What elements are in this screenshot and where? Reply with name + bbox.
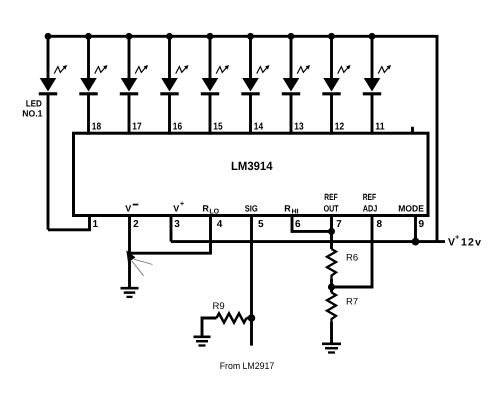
LED 2 (pin 18) cathode bar [79,92,97,95]
svg-text:1: 1 [93,219,99,230]
svg-text:+: + [455,233,460,242]
node: SIG / R9 junction dot [248,314,256,322]
wire: supply rail drop to LED 6 (pin 14) anode [249,36,252,80]
junction dot on +V rail at LED column 3 [126,33,133,40]
wire: LED 8 (pin 12) cathode down [330,94,333,135]
svg-text:R9: R9 [213,301,225,312]
wire: supply rail drop to LED 8 (pin 12) anode [330,36,333,80]
wire: LED NO.1 (pin 1) cathode down [47,94,50,230]
wire: supply rail drop to LED 2 (pin 18) anode [87,36,90,80]
LED 8 (pin 12) diode triangle [323,78,340,92]
op IC U1 LM3914 body [74,133,429,215]
LED 4 (pin 16) diode triangle [161,78,178,92]
svg-text:12v: 12v [461,237,482,249]
LED 5 (pin 15) light emission arrow [216,65,229,74]
node: R6/R7/REF ADJ junction dot [328,283,335,290]
LED 6 (pin 14) light emission arrow [257,65,270,74]
wire: LED 5 (pin 15) cathode down [209,94,212,135]
svg-text:R: R [284,203,291,213]
junction dot on +V rail at LED column 6 [247,33,254,40]
svg-text:REF: REF [363,192,377,202]
svg-text:2: 2 [133,219,139,230]
svg-text:HI: HI [292,209,299,216]
svg-text:7: 7 [336,219,342,230]
LED 3 (pin 17) cathode bar [120,92,138,95]
svg-text:13: 13 [294,122,304,133]
wire: supply rail drop to LED 3 (pin 17) anode [128,36,131,80]
wire: R7 down to ground [330,322,333,344]
wire: supply rail drop to LED 7 (pin 13) anode [290,36,293,80]
svg-text:14: 14 [254,122,264,133]
ground below R7 [322,344,341,353]
junction dot on +V rail at LED column 7 [288,33,295,40]
svg-text:From LM2917: From LM2917 [220,361,275,372]
resistor R7 [327,293,336,323]
wire: pin 7 REF OUT down to R6 [330,216,333,250]
LED 4 (pin 16) light emission arrow [176,65,189,74]
junction dot on +V rail at LED column 2 [85,33,92,40]
svg-text:4: 4 [217,219,223,230]
svg-text:ADJ: ADJ [363,203,378,213]
LED 9 (pin 11) diode triangle [364,78,381,92]
svg-text:REF: REF [324,192,338,202]
junction dot on +V rail at LED column 4 [166,33,173,40]
wire: pin 9 MODE down to +12V line [414,216,417,242]
LED NO.1 (pin 1) diode triangle [40,78,57,92]
svg-text:LO: LO [209,209,219,216]
wire: supply rail drop to LED NO.1 (pin 1) anode [47,36,50,80]
wire: LED 6 (pin 14) cathode down [249,94,252,135]
wire: LED 2 (pin 18) cathode down [87,94,90,135]
svg-text:6: 6 [295,219,301,230]
svg-text:16: 16 [173,122,183,133]
svg-text:+: + [180,199,185,208]
junction dot on +V rail at LED column 8 [328,33,335,40]
wire: supply rail drop to LED 4 (pin 16) anode [168,36,171,80]
svg-text:LED: LED [26,99,43,109]
LED 9 (pin 11) cathode bar [363,92,381,95]
LED 6 (pin 14) cathode bar [241,92,259,95]
LED 8 (pin 12) cathode bar [322,92,340,95]
LED 2 (pin 18) light emission arrow [95,65,108,74]
svg-text:8: 8 [377,219,383,230]
svg-text:OUT: OUT [324,203,339,213]
svg-text:V: V [448,237,455,249]
svg-text:MODE: MODE [398,203,424,213]
wire: junction right and up to pin 8 REF ADJ [332,216,373,288]
LED 9 (pin 11) light emission arrow [378,65,391,74]
svg-text:NO.1: NO.1 [22,109,42,119]
wire: +V supply top rail with right-side drop to V+ node [48,36,437,241]
LED 3 (pin 17) light emission arrow [135,65,148,74]
svg-text:5: 5 [258,219,264,230]
wire: LED 9 (pin 11) cathode down [371,94,374,135]
wire: R9 right lead to SIG line [247,317,252,320]
wire: LED 4 (pin 16) cathode down [168,94,171,135]
wire: pin 1 stub down and left to LED NO.1 cathode [48,216,90,230]
LED 2 (pin 18) diode triangle [80,78,97,92]
LED 8 (pin 12) light emission arrow [338,65,351,74]
svg-text:LM3914: LM3914 [231,159,273,173]
svg-text:R6: R6 [346,253,358,264]
node: MODE/+12V junction dot [412,238,420,246]
LED 7 (pin 13) diode triangle [283,78,300,92]
svg-text:11: 11 [375,122,385,133]
wire: pin 2 V- down to ground [128,216,131,289]
wire: pin 4 RLO down and left to V- wire [130,216,211,254]
wire: +12V horizontal line from pin 3 to V+ terminal [171,240,445,243]
junction dot on +V rail at LED column 1 [45,33,52,40]
arrow annotation pointing at V-/RLO junction [126,250,152,276]
ground below R9 [194,337,211,346]
LED 3 (pin 17) diode triangle [121,78,138,92]
svg-text:18: 18 [92,122,102,133]
svg-text:V: V [125,203,131,213]
wire: R9 left lead down to ground [202,318,217,337]
junction dot on +V rail at LED column 9 [369,33,376,40]
resistor R6 [327,249,336,279]
LED NO.1 (pin 1) cathode bar [39,92,57,95]
wire: LED 7 (pin 13) cathode down [290,94,293,135]
wire: pin 6 RHI down and right to REF OUT [292,216,332,232]
LED 5 (pin 15) diode triangle [202,78,219,92]
svg-text:SIG: SIG [245,203,258,213]
wire: supply rail drop to LED 5 (pin 15) anode [209,36,212,80]
wire: LED 3 (pin 17) cathode down [128,94,131,135]
svg-text:17: 17 [132,122,142,133]
LED 5 (pin 15) cathode bar [201,92,219,95]
svg-text:15: 15 [213,122,223,133]
LED NO.1 (pin 1) light emission arrow [54,65,67,74]
wire: pin 3 V+ down to +12V distribution line [170,216,173,242]
LED 6 (pin 14) diode triangle [242,78,259,92]
node: RHI/REF OUT junction dot [328,228,335,235]
svg-text:R: R [202,203,209,213]
resistor R9 [217,313,247,322]
pin 10 stub (unconnected) [411,127,414,133]
wire: supply rail drop to LED 9 (pin 11) anode [371,36,374,80]
LED 4 (pin 16) cathode bar [160,92,178,95]
svg-text:V: V [173,203,179,213]
svg-text:12: 12 [335,122,345,133]
LED 7 (pin 13) light emission arrow [297,65,310,74]
junction dot on +V rail at LED column 5 [207,33,214,40]
wire: R6 to R7 junction [330,279,333,293]
wire: pin 5 SIG input line down [250,216,253,346]
LED 7 (pin 13) cathode bar [282,92,300,95]
svg-text:9: 9 [419,219,425,230]
svg-text:R7: R7 [346,297,358,308]
ground at V- (pin 2) [121,288,139,297]
svg-text:3: 3 [174,219,180,230]
